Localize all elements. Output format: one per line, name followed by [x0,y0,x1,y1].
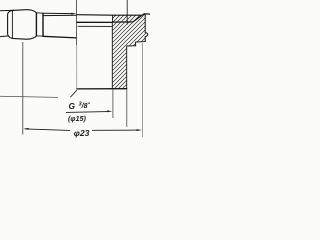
dimension phi23 [23,128,142,131]
hex narrow face bottom edge [36,35,43,37]
centerline x=22.8 below hex [22,42,24,135]
hatch lines [32,0,223,95]
bore mouth step [112,15,114,22]
wire pipe top edge left [0,9,14,12]
cylinder top edge [43,14,77,16]
svg-text:G: G [69,101,76,111]
flange bottom step 2 [127,46,136,89]
outer right edge with bead [145,14,148,41]
hex right silhouette [42,13,44,36]
rim top edge [77,14,141,17]
hex face edge 1 [11,11,13,39]
top face edge [77,21,113,23]
female part outline [77,14,150,89]
hex narrow face top edge [36,12,43,14]
wire pipe bottom edge left [0,35,8,38]
bore left edge [111,22,113,88]
leader vertical x=127 into part [126,0,128,25]
leader elbow diagonal [70,90,76,97]
svg-text:φ23: φ23 [74,128,90,138]
bottom face line [77,88,127,90]
dimension line with right arrow at x=76 [43,13,76,15]
cylinder bottom edge [43,36,77,38]
extension line below stem right x=126.8 [126,89,128,127]
hex head outline [8,10,37,40]
extension line below bore left x=112.8 [112,89,114,118]
hex face edge 2 [35,13,37,36]
svg-text:(φ15): (φ15) [68,114,86,123]
extension line right x=142.5 [142,43,144,137]
top face thick right portion and chamfer [113,14,151,22]
inner face line [78,25,112,27]
extension line x=76.5 vertical [76,0,78,45]
crosshair horizontal [0,96,58,97]
G label leader with arrow [66,90,112,112]
flange bottom step 1 [136,42,146,46]
